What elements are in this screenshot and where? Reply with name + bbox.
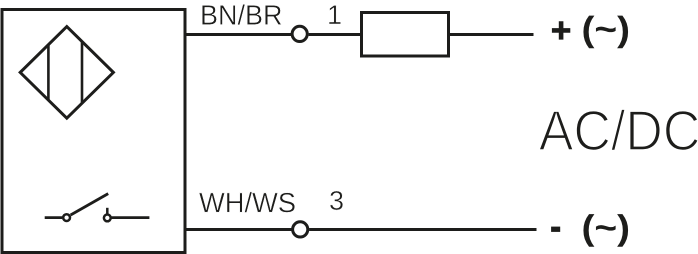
wire: sensor body to terminal 1 — [185, 33, 291, 36]
switch S1: actuating arm (open) — [71, 194, 109, 215]
switch S1: right contact circle — [104, 215, 111, 222]
switch S1: left lead — [45, 216, 63, 219]
proximity sensor symbol: diamond — [20, 27, 113, 119]
diamond inner vertical line (left) — [47, 44, 50, 100]
wire: sensor body to terminal 3 — [185, 228, 292, 231]
supply label (~) bottom — [583, 214, 628, 247]
diamond inner vertical line (right) — [81, 41, 84, 103]
pin number 3 — [330, 191, 343, 210]
pin number 1 — [329, 5, 341, 24]
wire: terminal 3 to - terminal — [309, 228, 536, 231]
supply label - (minus sign) — [551, 227, 560, 232]
sensor body U1 (enclosure rectangle) — [2, 10, 185, 253]
supply label AC/DC — [539, 109, 698, 150]
switch S1: left contact circle — [63, 214, 70, 221]
switch S1: right lead — [112, 216, 150, 219]
switch S1: right contact stub — [106, 208, 109, 215]
terminal 3 (node circle) — [293, 222, 308, 237]
wire label WH/WS — [199, 192, 295, 213]
wire: terminal 1 to resistor — [309, 33, 362, 36]
supply label (~) top — [583, 16, 628, 49]
wire: resistor to + terminal — [449, 33, 534, 36]
resistor R1 (load box) — [362, 13, 449, 57]
terminal 1 (node circle) — [292, 26, 307, 41]
wire label BN/BR — [202, 4, 281, 25]
supply label + (plus sign) — [552, 21, 570, 39]
